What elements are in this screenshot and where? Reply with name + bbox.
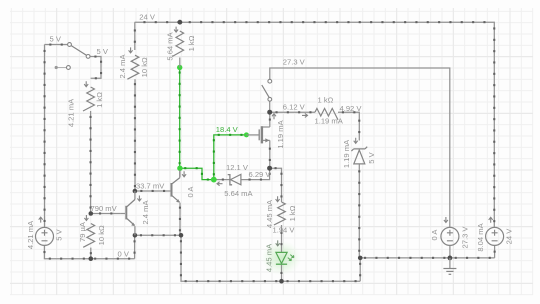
junction: Q1 collector node 33.7mV [133, 189, 138, 194]
current arrow V1 4.21mA [39, 217, 43, 223]
wire: rail down to R3 top [134, 22, 136, 50]
LED glow [262, 241, 302, 276]
wire: D1 anode to node 6.29V [241, 168, 271, 180]
wire: emitter rail [135, 234, 181, 236]
wire: ground return bottom [180, 235, 360, 282]
svg-text:1.94 V: 1.94 V [273, 225, 296, 234]
wire: R6 bottom lead [90, 248, 92, 259]
voltage source V3 24V [486, 227, 504, 245]
wire: node B to diode D1 cathode [216, 179, 230, 181]
current arrow M1 1.19mA [272, 114, 276, 120]
current arrow D1 5.64mA [217, 182, 223, 186]
wire: R5 to LED [280, 225, 282, 252]
svg-text:10 kΩ: 10 kΩ [140, 57, 149, 77]
svg-text:18.4 V: 18.4 V [216, 125, 239, 134]
wire: R2 bottom lead [179, 58, 181, 68]
svg-text:2.4 mA: 2.4 mA [118, 54, 127, 79]
green junction A (18.4V net) [177, 166, 182, 171]
current arrow D2 1.19mA [354, 138, 358, 144]
resistor R2 1k [172, 31, 183, 56]
svg-text:1.19 mA: 1.19 mA [276, 119, 285, 148]
svg-text:24 V: 24 V [505, 228, 514, 245]
svg-text:0 A: 0 A [430, 229, 439, 241]
svg-text:5.64 mA: 5.64 mA [224, 189, 253, 198]
green junction B at diode [211, 177, 217, 183]
svg-text:4.21 mA: 4.21 mA [26, 220, 35, 249]
wire: V2 bottom lead [449, 245, 451, 258]
svg-text:5.64 mA: 5.64 mA [166, 31, 175, 60]
resistor R1 1k [83, 87, 94, 111]
current arrow R1 4.21mA [84, 81, 88, 87]
MOSFET M1 [246, 126, 269, 143]
svg-text:27.3 V: 27.3 V [283, 57, 306, 66]
green terminal C at MOSFET gate [244, 132, 249, 137]
svg-text:6.29 V: 6.29 V [249, 170, 272, 179]
wire: source lead down [269, 140, 271, 168]
wire: R1 bottom to node 790mV [90, 111, 92, 214]
junction: node 6.29V [267, 166, 272, 171]
svg-text:1 kΩ: 1 kΩ [318, 96, 334, 105]
wire: R4 to zener D2 [338, 111, 360, 140]
junction: R6 on 0V rail [89, 256, 94, 261]
wire: V3 bottom lead [494, 245, 496, 258]
svg-text:10 kΩ: 10 kΩ [97, 225, 106, 245]
current arrow Q1 2.4mA [137, 196, 141, 202]
svg-text:24 V: 24 V [139, 12, 156, 21]
junction: LED on bottom rail [279, 279, 284, 284]
svg-text:33.7 mV: 33.7 mV [136, 182, 165, 191]
wire: ground rail to V3 [360, 257, 494, 259]
green terminal: R2 bottom [177, 65, 182, 70]
resistor R3 10k [127, 55, 138, 79]
svg-text:6.12 V: 6.12 V [283, 103, 306, 112]
svg-text:1 kΩ: 1 kΩ [95, 92, 104, 108]
svg-text:1.19 mA: 1.19 mA [342, 139, 351, 168]
voltage source V2 27.3V [441, 227, 459, 245]
wire: 24V top rail [135, 21, 496, 227]
svg-text:4.45 mA: 4.45 mA [265, 199, 274, 228]
svg-text:4.21 mA: 4.21 mA [66, 98, 75, 127]
wire: node 6.12V to R4 [272, 111, 315, 113]
LED D3 [276, 252, 294, 264]
current arrow LED [276, 240, 280, 246]
green wire: R2 bottom down (18.4V net) [179, 68, 181, 169]
ground [443, 258, 456, 274]
wire: switch S1 pole to source V1 top [44, 45, 46, 228]
junction: Q1 emitter node [133, 233, 138, 238]
svg-text:1.19 mA: 1.19 mA [315, 117, 344, 126]
wire: drain lead up to node 6.12V [269, 112, 271, 127]
current arrow R4 1.19mA [302, 113, 308, 117]
green wire: to diode node [180, 167, 214, 181]
svg-text:4.45 mA: 4.45 mA [264, 243, 273, 272]
switch S2 (open) [262, 79, 272, 101]
current arrow V3 8.04mA [489, 217, 493, 223]
junction: Q2 emitter node [179, 233, 184, 238]
svg-text:5 V: 5 V [50, 35, 62, 44]
svg-text:5 V: 5 V [367, 151, 376, 163]
current arrow Q2 0A [182, 171, 186, 177]
transistor Q1 NPN [121, 191, 135, 235]
wire: zener to ground rail [358, 164, 360, 258]
wire: bottom rail up to zener node [359, 258, 361, 281]
wire: Q2 collector stub [179, 170, 181, 177]
wire: S1 top terminal lead [45, 44, 68, 46]
svg-text:790 mV: 790 mV [91, 204, 118, 213]
current arrow R3 2.4mA [129, 47, 133, 53]
svg-text:1 kΩ: 1 kΩ [187, 35, 196, 51]
svg-text:1 kΩ: 1 kΩ [288, 205, 297, 221]
current arrow R5 4.45mA [276, 196, 280, 202]
wire: S2 top to V2 (27.3V net) [270, 68, 450, 227]
current arrow R6 79uA [84, 215, 88, 221]
resistor R6 10k [83, 224, 94, 248]
wire: S2 bottom lead [269, 101, 271, 112]
svg-text:4.92 V: 4.92 V [340, 104, 363, 113]
green wire: up to MOSFET gate [213, 134, 247, 180]
diode D1 [228, 174, 241, 184]
wire: V1 bottom to 0V rail [43, 245, 134, 259]
svg-text:5 V: 5 V [97, 47, 109, 56]
junction: R2 top on 24V rail [178, 20, 183, 25]
voltage source V1 5V [36, 227, 54, 245]
svg-text:27.3 V: 27.3 V [460, 226, 469, 249]
wire: node 33.7mV to Q2 base [135, 190, 171, 192]
junction: node 6.12V [267, 110, 272, 115]
svg-text:12.1 V: 12.1 V [226, 163, 249, 172]
switch S1 (SPDT) [55, 43, 90, 70]
resistor R4 1k [315, 108, 338, 119]
wire: 0V rail up to emitter rail [134, 235, 136, 258]
wire: node 790mV to Q1 base [91, 212, 121, 214]
current arrow V2 0A [444, 217, 448, 223]
junction: ground node [448, 256, 453, 261]
wire: node 6.29V to R5 [270, 167, 283, 202]
svg-text:8.04 mA: 8.04 mA [476, 222, 485, 251]
junction: zener on ground rail [358, 256, 363, 261]
zener diode D2 5V [351, 147, 367, 164]
svg-text:0 V: 0 V [118, 250, 130, 259]
svg-text:2.4 mA: 2.4 mA [141, 200, 150, 225]
resistor R5 1k [274, 202, 285, 225]
wire: Q2 emitter down [179, 203, 181, 236]
svg-text:79 µA: 79 µA [78, 221, 87, 242]
transistor Q2 NPN [171, 170, 180, 202]
wire: LED to bottom rail [280, 265, 282, 281]
svg-text:0 A: 0 A [186, 186, 195, 198]
wire: R3 bottom to Q1 collector node [134, 79, 136, 191]
current arrow R2 5.64mA [174, 27, 178, 32]
junction: node 790mV [89, 211, 94, 216]
wire: S1 throw to resistor R1 [90, 56, 102, 80]
svg-text:5 V: 5 V [54, 228, 63, 240]
